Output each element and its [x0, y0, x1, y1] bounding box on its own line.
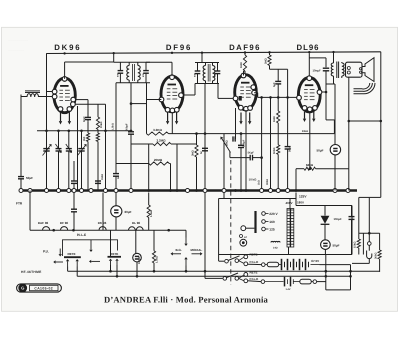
svg-text:1.5kΩ: 1.5kΩ [156, 256, 159, 263]
wire IF1 return down [115, 83, 117, 164]
wire pile1 to fuse [248, 263, 262, 265]
svg-text:160: 160 [269, 220, 275, 224]
arrow BG up [185, 259, 187, 265]
wire cathode left leg [295, 169, 297, 191]
svg-text:3.3KΩ: 3.3KΩ [153, 128, 162, 132]
wire AVC line above gang [37, 130, 131, 132]
wire DAF96 top pin up [243, 71, 245, 76]
wire DK96 anode to IF1 [65, 61, 114, 63]
svg-text:125V: 125V [299, 195, 307, 199]
wire DF96 top pin up [171, 62, 173, 76]
wire bottom A [68, 270, 380, 272]
capacitor 100pF osc [85, 116, 91, 118]
chain junction dot [52, 229, 55, 232]
wire HT branch down [333, 120, 335, 134]
svg-text:G: G [21, 286, 24, 291]
tube U4 DL96 pins [307, 76, 312, 81]
svg-text:3MΩ: 3MΩ [192, 150, 195, 156]
tube DAF96 filament arrows [240, 113, 242, 122]
switch S1 row1 [225, 259, 229, 263]
wire BG bottom [185, 266, 187, 272]
svg-text:125: 125 [269, 228, 275, 232]
svg-text:········: ········ [8, 48, 24, 54]
svg-text:P.U.: P.U. [43, 250, 49, 254]
wire pile2 to cell [248, 280, 261, 283]
wire det vertical A [261, 97, 263, 190]
fuse F1 [267, 262, 279, 267]
power box right section [296, 205, 352, 207]
wire DK96 pin to 100pF [76, 99, 89, 101]
svg-text:FTR: FTR [16, 202, 23, 206]
wire AVC vertical with cap [115, 164, 117, 174]
svg-text:15kΩ: 15kΩ [354, 242, 357, 248]
heater DF96 bump [61, 227, 68, 231]
rail junction dots [63, 52, 65, 54]
pile wiring box [63, 240, 118, 256]
wire bus to power box [295, 193, 297, 199]
svg-text:P.I.L.E: P.I.L.E [250, 277, 259, 281]
wire primary bottom [326, 83, 335, 85]
resistor 680 ohm cathode [296, 168, 304, 170]
IF T1 left capacitor [119, 62, 121, 70]
resistor 390 ohm osc B [96, 133, 99, 142]
resistor 360 ohm [379, 233, 381, 250]
wire DF96 grid leak down [146, 100, 148, 134]
svg-text:1.4V: 1.4V [286, 288, 291, 291]
tube DL96 filament arrows [304, 112, 306, 119]
arrow BG left [173, 253, 181, 255]
fuse coil 14 ohm [271, 241, 280, 242]
arrows into RETE1 [67, 261, 69, 266]
svg-text:360Ω: 360Ω [374, 253, 377, 259]
heater DK96 bump [99, 227, 106, 231]
svg-text:HF.46THME: HF.46THME [21, 270, 42, 274]
tube DK96 filament arrows [60, 113, 62, 122]
svg-text:10 kΩ: 10 kΩ [249, 178, 257, 182]
tube U1 DK96 internal grids [59, 89, 63, 91]
svg-text:DF96: DF96 [166, 43, 192, 52]
svg-text:DL 96: DL 96 [132, 221, 140, 225]
wire chain to BG [185, 230, 187, 237]
svg-text:CA105-02: CA105-02 [34, 287, 53, 291]
wire DF96 cathode down [171, 112, 173, 134]
resistor 1.5k filament [153, 230, 155, 251]
wires arrows to bottom [67, 267, 69, 272]
capacitor 50pF agc [285, 146, 291, 148]
bus junction rings [19, 189, 23, 193]
heater DL96 bumps [129, 227, 136, 230]
wire DL96 top jog [309, 57, 326, 59]
selector contact 160V [262, 220, 266, 224]
svg-text:5KpF: 5KpF [248, 151, 255, 154]
wire 20M left to bus [148, 164, 150, 191]
tube U1 DK96 pins [62, 77, 67, 82]
capacitor 500pF [128, 131, 134, 133]
tube U1 DK96 getter bar [60, 85, 69, 87]
tube U2 DF96 internal grids [167, 88, 171, 90]
capacitor 5nF detector [202, 147, 208, 149]
svg-text:67.5V: 67.5V [311, 259, 319, 263]
capacitor screen bypass [73, 161, 75, 181]
svg-text:500pF: 500pF [126, 123, 129, 131]
wire IF1 secondary return [130, 83, 132, 132]
wire right border bottom jog [369, 196, 381, 198]
jack hook [367, 251, 372, 259]
svg-text:DK 96: DK 96 [98, 221, 107, 225]
wire right border down [380, 52, 382, 198]
resistor 1.5k bus to chain [148, 193, 150, 206]
wire DL96 cathode down [309, 112, 311, 169]
svg-text:··········: ·········· [8, 38, 28, 44]
IF T1 core [132, 64, 134, 81]
wire DK96 screen down [77, 106, 79, 191]
arrow PU down [59, 249, 61, 255]
wire battery to vertical [320, 264, 351, 266]
svg-text:D’ANDREA F.lli · Mod. Pers: D’ANDREA F.lli · Mod. Personal Armonia [104, 295, 269, 305]
capacitor osc bypass [95, 180, 101, 182]
wire coil to DK96 grid [39, 96, 53, 98]
svg-text:14Ω: 14Ω [273, 247, 278, 250]
electrolytic 50uF cathode [330, 145, 340, 155]
svg-text:500Ω: 500Ω [273, 148, 276, 154]
heater chain line [30, 229, 186, 231]
arrow RETE2 left [91, 260, 100, 262]
antenna coil L1 [25, 90, 40, 92]
wire volume vertical [176, 144, 178, 191]
wire DK heater drop [102, 193, 104, 231]
svg-text:50μF: 50μF [333, 244, 340, 248]
wire T2 right cap to DAF96 grid [217, 84, 219, 99]
speaker flex leads [354, 83, 376, 94]
tube DAF96 diode plate [239, 96, 242, 101]
wire DF96 grid left [147, 99, 162, 101]
contacts RETE row2 [244, 273, 248, 277]
volume potentiometer 1M [223, 134, 225, 191]
svg-text:60μF: 60μF [125, 210, 132, 214]
svg-text:1MΩ: 1MΩ [273, 116, 276, 122]
svg-text:DAF96: DAF96 [229, 43, 261, 52]
selector small contact [240, 235, 243, 238]
resistor 500 ohm bias [277, 145, 280, 155]
wire DL96 top pin up [308, 53, 310, 76]
wire DAF96 grid via cap [232, 136, 234, 141]
wire HT dropper vertical [358, 197, 360, 235]
wire jack branch vertical [368, 197, 370, 241]
electrolytic 50uF HT [321, 240, 331, 250]
svg-text:5μF: 5μF [273, 82, 276, 87]
wire antenna to coil [21, 96, 27, 98]
tube U4 DL96 envelope [298, 78, 320, 112]
svg-text:4n: 4n [117, 176, 120, 179]
wire DK96 pin2 down [76, 103, 106, 105]
capacitor trimmer C3 [68, 131, 70, 149]
jack contact [368, 242, 372, 246]
wire right risers [325, 255, 327, 290]
speaker LS1 cone [362, 58, 374, 82]
wire screen feed vertical [105, 104, 107, 190]
diode D1 [321, 216, 330, 224]
junction dots bottom [109, 270, 112, 273]
power box outline [219, 198, 296, 200]
tube U3 DAF96 internal grids [240, 86, 244, 88]
bar RETE 2 [108, 256, 122, 258]
svg-text:RETE: RETE [110, 252, 118, 256]
resistor 2M ohm AF feed [269, 53, 271, 55]
arrows into RETE2 [110, 261, 112, 265]
selector arm [241, 226, 246, 231]
svg-text:10kΩ: 10kΩ [100, 122, 103, 128]
svg-text:2MΩ: 2MΩ [265, 58, 268, 64]
mains selector wafer [254, 211, 256, 233]
svg-text:RETE: RETE [250, 270, 258, 274]
electrolytic 100uF [133, 253, 142, 262]
tube U3 DAF96 getter bar [241, 82, 250, 84]
capacitor trimmer C2 [58, 131, 60, 149]
svg-text:P.I.L.E: P.I.L.E [77, 233, 86, 237]
bar RETE 1 [64, 256, 81, 258]
tube U2 DF96 envelope [161, 76, 183, 112]
wire chain to RETE2 [110, 230, 112, 257]
svg-text:10nμF: 10nμF [334, 217, 343, 221]
wire top HT rail [47, 52, 381, 54]
switch S1 row2 [223, 277, 227, 281]
wire 2.2M to 20M join [148, 144, 150, 164]
wire cathode net to bus [334, 155, 336, 191]
IF transformer T2 frame [201, 53, 203, 62]
svg-text:MODUL.: MODUL. [191, 248, 203, 252]
output transformer T3 primary [333, 52, 335, 63]
resistor 1M grid DL96 [277, 111, 280, 123]
svg-text:1MΩ: 1MΩ [226, 140, 229, 146]
svg-text:1.5kΩ: 1.5kΩ [150, 210, 153, 217]
power transformer T4 winding [287, 209, 290, 248]
resistor 10k osc [96, 117, 99, 130]
wire osc line down [46, 92, 48, 147]
svg-text:RETE: RETE [67, 252, 75, 256]
svg-text:390: 390 [83, 136, 86, 141]
wire tone cap to DL96 anode [322, 91, 327, 93]
variable capacitor CV2 [81, 131, 83, 149]
arrow MODUL right [192, 253, 201, 255]
svg-text:P.I.L.E: P.I.L.E [250, 260, 259, 264]
switch gang dashed link [230, 160, 232, 285]
capacitor bypass filament [73, 193, 75, 209]
svg-text:5n: 5n [200, 151, 203, 154]
wire speaker return [348, 77, 350, 169]
IF T1 right capacitor [145, 62, 147, 70]
svg-text:50μF: 50μF [26, 176, 33, 180]
IF T1 secondary coil [138, 66, 140, 81]
svg-text:50μF: 50μF [317, 149, 324, 153]
wire transformer top [289, 199, 291, 209]
capacitor 5uF coupling [277, 69, 279, 81]
tube U2 DF96 pins [170, 75, 175, 80]
svg-text:150Ω: 150Ω [101, 174, 104, 180]
wire AF line to DL96 grid [258, 96, 299, 98]
svg-text:DK96: DK96 [54, 43, 81, 52]
resistor 15k dropper [358, 235, 360, 239]
wire det vertical B [270, 97, 272, 190]
arrow BG down [185, 238, 187, 244]
capacitor 50pF antenna [18, 176, 24, 178]
svg-text:B.G.: B.G. [176, 248, 182, 252]
capacitor 200pF det [240, 134, 242, 145]
svg-text:200pF: 200pF [243, 139, 246, 147]
wire 2.2M to right [171, 143, 197, 145]
wire bus to switch row2 [204, 193, 206, 279]
variable capacitor CV1 [46, 146, 48, 191]
wire DAF96 mid pin down [245, 110, 247, 191]
wire AF takeoff [229, 152, 231, 158]
selector contact 220V [262, 212, 266, 216]
electrolytic 60uF filament [115, 193, 117, 207]
power box inner right edge [362, 233, 364, 254]
logo badge [17, 284, 62, 292]
battery B2 1.4V [284, 277, 286, 287]
svg-text:50pF: 50pF [83, 116, 86, 122]
tube DF96 filament arrows [167, 113, 169, 122]
wire 20M right to bus [169, 163, 170, 165]
wire box edge to switch row1 [219, 260, 225, 262]
svg-text:20MΩ: 20MΩ [154, 158, 163, 162]
battery B1 67.5V [281, 259, 283, 270]
arrow pile down [90, 240, 92, 250]
wire DF96 anode to T2 [183, 94, 191, 96]
wire antenna left vertical [20, 95, 22, 177]
wire OT secondary junction [349, 120, 381, 122]
wire 100pF to resistor [87, 122, 89, 133]
heater DL96 centre tap [135, 230, 137, 253]
svg-text:33kΩ: 33kΩ [302, 130, 308, 133]
output transformer T3 secondary [342, 63, 344, 76]
svg-text:DAF 96: DAF 96 [38, 221, 49, 225]
wire gang to 2.2M [131, 143, 153, 145]
wire DK96 top pin up [64, 62, 66, 79]
IF T1 primary coil [127, 66, 129, 81]
contacts PILE row2 [244, 279, 248, 283]
tube U3 DAF96 pins [241, 73, 246, 78]
wire anode feed across [270, 68, 288, 70]
IF T2 primary coil [203, 66, 205, 81]
svg-text:1.5kΩ: 1.5kΩ [111, 123, 114, 130]
svg-text:DF 96: DF 96 [60, 221, 69, 225]
wire T2 secondary down [204, 84, 206, 191]
svg-text:300Ω: 300Ω [266, 179, 269, 185]
resistor 1M ohm AF feed [244, 53, 246, 55]
IF T2 right capacitor [217, 63, 219, 71]
wire IF1 to DF96 grid [131, 103, 147, 105]
wire antenna cap to bus [20, 179, 22, 191]
wire rail down left of DK96 [46, 53, 48, 91]
wire bottom B [77, 275, 350, 277]
svg-text:DL96: DL96 [296, 43, 319, 52]
svg-text:2.2MΩ: 2.2MΩ [156, 139, 166, 143]
selector contact 125V [262, 227, 266, 231]
bus LT line [21, 189, 357, 192]
resistor 390 ohm osc A [86, 133, 89, 142]
wire pot to power box [223, 193, 225, 199]
svg-text:100μF: 100μF [138, 256, 141, 264]
IF transformer T1 frame [113, 53, 115, 62]
svg-text:220 V: 220 V [269, 212, 278, 216]
svg-text:400V: 400V [286, 201, 293, 205]
fuse F2 [293, 281, 300, 283]
wire jack to box [368, 259, 370, 264]
resistor 3M ohm IF [195, 145, 198, 157]
tube U2 DF96 getter bar [168, 84, 177, 86]
contacts PILE row1 [244, 262, 248, 266]
bus junction dots [147, 189, 150, 192]
IF T2 secondary coil [213, 66, 215, 81]
tube U4 DL96 getter bar [305, 84, 314, 86]
capacitor 5KpF AF [249, 155, 251, 161]
tube U4 DL96 internal grids [304, 89, 308, 91]
wire bus to chain left [29, 191, 31, 231]
svg-text:RETE: RETE [250, 253, 258, 257]
contacts RETE row1 [244, 255, 248, 259]
svg-text:1MΩ: 1MΩ [240, 62, 243, 68]
capacitor 40nF AVC [113, 173, 119, 175]
wire OT primary down [334, 84, 336, 144]
tube U3 DAF96 envelope [235, 75, 257, 110]
svg-text:180V: 180V [297, 200, 304, 204]
IF T2 left capacitor [197, 63, 199, 71]
svg-text:1kΩ: 1kΩ [257, 180, 260, 185]
svg-text:680Ω: 680Ω [306, 163, 314, 167]
wire right bottom ends [350, 275, 352, 277]
IF T2 core [207, 64, 209, 82]
output transformer T3 core [336, 62, 338, 79]
wire diode branch top [324, 206, 326, 216]
pilot lamp [240, 239, 247, 246]
heater DAF96 bump [43, 227, 50, 231]
svg-text:10nμF: 10nμF [313, 69, 322, 73]
tube U1 DK96 envelope [54, 78, 75, 113]
speaker LS1 magnet [346, 62, 363, 77]
svg-text:50p: 50p [289, 147, 292, 152]
arrow RETE1 left [56, 261, 64, 263]
